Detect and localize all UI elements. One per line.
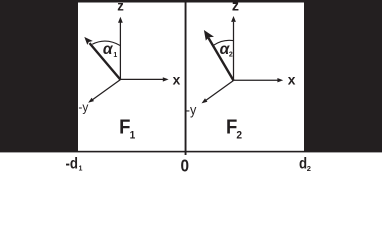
film F1: -y axis arrowhead — [88, 98, 94, 103]
film F2: -y axis arrowhead — [202, 98, 208, 103]
svg-text:-d: -d — [66, 155, 79, 172]
svg-text:x: x — [288, 72, 296, 87]
svg-text:2: 2 — [307, 164, 311, 173]
svg-text:z: z — [232, 0, 239, 15]
film F1: magnetization arrowhead — [84, 37, 93, 45]
dark matte top strip — [0, 0, 382, 3]
svg-text:0: 0 — [180, 156, 189, 173]
film F1: x axis arrowhead — [163, 77, 169, 81]
film F2: magnetization arrow shaft — [208, 38, 233, 81]
film F2: angle arc alpha2 — [213, 40, 233, 45]
film F1: z axis arrowhead — [118, 17, 123, 23]
film F2: magnetization arrowhead — [204, 30, 214, 41]
divider line between films F1 and F2 (interface at 0) — [185, 2, 187, 155]
film F1: -y axis line — [91, 80, 120, 101]
svg-text:2: 2 — [229, 52, 233, 59]
svg-text:-y: -y — [186, 102, 197, 117]
svg-text:z: z — [117, 0, 124, 14]
horizontal axis line at bottom — [0, 151, 382, 153]
film F2: x axis arrowhead — [277, 78, 283, 82]
svg-text:1: 1 — [79, 164, 83, 172]
svg-text:α: α — [103, 41, 114, 58]
film F2: z axis line — [233, 22, 235, 81]
svg-text:x: x — [173, 73, 181, 88]
film F2: z axis arrowhead — [231, 16, 236, 22]
svg-text:1: 1 — [113, 52, 117, 59]
svg-text:2: 2 — [236, 129, 242, 142]
dark matte left block — [0, 0, 78, 151]
white page background — [0, 0, 382, 173]
film F1: x axis line — [120, 78, 163, 80]
svg-text:-y: -y — [78, 100, 89, 114]
film F1: z axis line — [119, 23, 121, 80]
film F2: x axis line — [234, 79, 279, 81]
film F1: magnetization arrow shaft — [90, 43, 121, 80]
dark matte right block — [304, 0, 382, 152]
film F1: angle arc alpha1 — [92, 41, 120, 46]
film F2: -y axis line — [205, 81, 234, 102]
svg-text:1: 1 — [130, 129, 136, 142]
